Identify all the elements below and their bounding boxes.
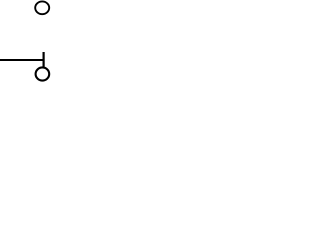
wire xyxy=(0,59,44,61)
switch contact terminal circle (bottom) xyxy=(36,67,50,80)
switch contact terminal circle (top) xyxy=(35,1,49,14)
common terminal tick xyxy=(42,52,44,67)
